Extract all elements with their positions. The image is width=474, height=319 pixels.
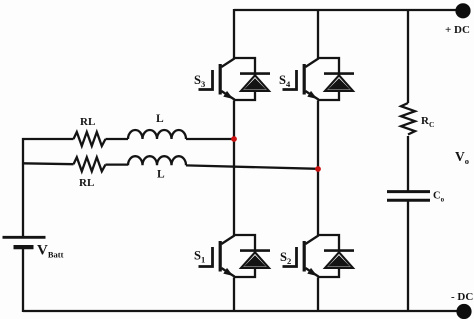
S1 body bar	[219, 241, 222, 272]
transistor S4 (IGBT)	[283, 58, 340, 100]
S3 emitter arrowhead	[223, 91, 233, 99]
S4 body bar	[303, 64, 306, 95]
diode D1 cathode bar	[240, 249, 270, 252]
svg-text:- DC: - DC	[451, 291, 473, 303]
node A (junction red dot, leg1)	[231, 136, 237, 142]
wire: left battery branch vertical	[22, 138, 24, 236]
S3 body bar	[219, 64, 222, 95]
wire: branch2 left segment	[22, 162, 74, 165]
wire: S3 collector bend	[234, 58, 255, 76]
capacitor Co top plate	[387, 190, 430, 193]
battery V_Batt negative plate	[14, 245, 34, 249]
wire: S2 collector bend	[318, 235, 339, 253]
diode D3 cathode bar	[240, 72, 270, 75]
diode D3 triangle outline	[241, 75, 269, 91]
-DC terminal	[456, 304, 471, 319]
wire: S3 emitter bend	[234, 90, 255, 100]
diode D4 (freewheeling, antiparallel with S4)	[324, 74, 354, 91]
wire: S1 collector bend	[234, 235, 255, 253]
wire: branch2 right segment to node B	[186, 165, 318, 168]
diode D2 triangle fill	[328, 255, 350, 266]
resistor RL (branch1)	[74, 132, 106, 146]
diode D4 cathode bar	[324, 72, 354, 75]
S2 gate lead and gate bar	[283, 247, 297, 267]
wire: S1 emitter bend	[234, 267, 255, 277]
+DC terminal	[455, 3, 470, 18]
wire: branch1 left segment	[22, 138, 74, 140]
diode D4 triangle outline	[325, 75, 353, 91]
wire: S4 collector bend	[318, 58, 339, 76]
wire: output leg Rc to capacitor	[407, 136, 409, 191]
svg-text:RL: RL	[79, 177, 94, 189]
wire: bottom DC bus	[23, 310, 464, 312]
wire: S2 emitter bend	[318, 267, 339, 277]
S2 collector stroke	[305, 235, 318, 244]
capacitor Co bottom plate	[387, 199, 430, 202]
wire: branch1 mid segment	[106, 138, 129, 140]
resistor RL (branch2)	[74, 157, 106, 171]
S2 emitter arrowhead	[307, 268, 317, 276]
svg-text:L: L	[157, 169, 165, 181]
S2 emitter stroke	[305, 268, 318, 277]
wire: branch1 right segment to node A	[186, 138, 234, 140]
S3 gate lead and gate bar	[199, 70, 213, 90]
S2 body bar	[303, 241, 306, 272]
S1 emitter stroke	[221, 268, 234, 277]
wire: output leg top (bus to Rc)	[407, 9, 409, 103]
diode D3 triangle fill	[244, 78, 266, 89]
S1 emitter arrowhead	[223, 268, 233, 276]
S3 emitter stroke	[221, 91, 234, 100]
S4 gate lead and gate bar	[283, 70, 297, 90]
wire: S4 emitter bend	[318, 90, 339, 100]
transistor S1 (IGBT)	[199, 235, 256, 277]
S3 collector stroke	[221, 58, 234, 67]
resistor Rc (output)	[401, 103, 415, 135]
diode D1 triangle fill	[244, 255, 266, 266]
wire: branch2 mid segment	[106, 163, 129, 165]
S1 collector stroke	[221, 235, 234, 244]
wire: leg2 S2 emitter to bottom bus	[317, 278, 319, 313]
diode D2 triangle outline	[325, 252, 353, 268]
wire: leg1 collector of S3	[233, 9, 235, 58]
S4 emitter arrowhead	[307, 91, 317, 99]
transistor S3 (IGBT)	[199, 58, 256, 100]
transistor S2 (IGBT)	[283, 235, 340, 277]
inductor L (branch1)	[128, 130, 186, 139]
svg-text:+ DC: + DC	[445, 24, 470, 36]
inductor L (branch2)	[128, 156, 186, 165]
diode D1 (freewheeling, antiparallel with S1)	[240, 251, 270, 268]
diode D2 (freewheeling, antiparallel with S2)	[324, 251, 354, 268]
node B (junction red dot, leg2)	[315, 166, 321, 172]
diode D3 (freewheeling, antiparallel with S3)	[240, 74, 270, 91]
diode D1 triangle outline	[241, 252, 269, 268]
svg-text:L: L	[156, 113, 164, 125]
wire: leg1 midsection S3 emitter to S1 collector	[233, 101, 235, 236]
wire: output leg capacitor to bottom bus	[407, 202, 409, 313]
wire: leg2 midsection S4 emitter to S2 collector	[317, 101, 319, 236]
S1 gate lead and gate bar	[199, 247, 213, 267]
S4 emitter stroke	[305, 91, 318, 100]
wire: leg1 S1 emitter to bottom bus	[233, 278, 235, 313]
diode D2 cathode bar	[324, 249, 354, 252]
diode D4 triangle fill	[328, 78, 350, 89]
wire: top DC bus	[234, 9, 463, 11]
S4 collector stroke	[305, 58, 318, 67]
svg-text:RL: RL	[80, 116, 95, 128]
wire: leg2 collector of S4	[317, 9, 319, 58]
battery V_Batt positive plate	[3, 236, 46, 239]
wire: left battery branch vertical lower	[22, 248, 24, 312]
